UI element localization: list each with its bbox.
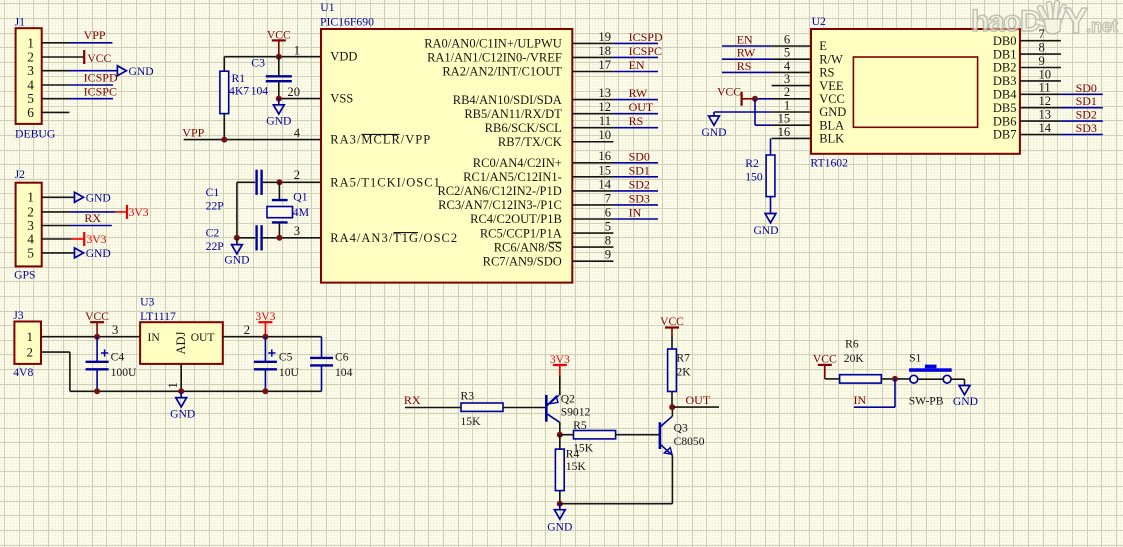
svg-text:LT1117: LT1117 xyxy=(140,310,176,323)
svg-text:BLA: BLA xyxy=(819,118,844,132)
wire R6 to S1 xyxy=(881,378,910,380)
svg-text:R4: R4 xyxy=(566,448,580,461)
svg-text:3V3: 3V3 xyxy=(255,310,275,323)
svg-text:3: 3 xyxy=(784,72,790,86)
wire J2 pin4 xyxy=(42,238,72,240)
svg-text:1: 1 xyxy=(27,35,34,50)
svg-text:U1: U1 xyxy=(320,1,334,14)
wire VPP node xyxy=(184,139,321,141)
wire BLK to R2 xyxy=(770,138,772,155)
svg-text:VCC: VCC xyxy=(85,310,109,323)
svg-text:DB6: DB6 xyxy=(993,114,1017,128)
wire OUT xyxy=(674,406,719,408)
capacitor C5 xyxy=(264,337,266,362)
svg-text:12: 12 xyxy=(1039,94,1052,108)
node VPP junction xyxy=(221,137,227,143)
svg-text:1: 1 xyxy=(784,98,790,112)
node pin20 junction xyxy=(276,96,282,102)
wire U1 pin2 OSC1 xyxy=(263,181,321,183)
wire U1 pin3 OSC2 xyxy=(263,237,321,239)
node C5 top junction xyxy=(262,334,268,340)
wire J1 pin3 xyxy=(42,70,70,72)
power port VCC top xyxy=(272,39,286,41)
svg-text:9: 9 xyxy=(1039,54,1045,68)
svg-text:haoD: haoD xyxy=(971,5,1041,38)
svg-text:R1: R1 xyxy=(232,72,246,85)
svg-text:3V3: 3V3 xyxy=(87,233,107,246)
ground R2 xyxy=(765,214,776,223)
svg-text:15: 15 xyxy=(598,163,611,177)
ground S1 xyxy=(959,386,970,395)
svg-text:4: 4 xyxy=(784,59,791,73)
svg-text:8: 8 xyxy=(605,234,611,248)
svg-text:2: 2 xyxy=(27,345,34,360)
svg-text:11: 11 xyxy=(599,114,611,128)
svg-text:GND: GND xyxy=(266,115,291,128)
svg-text:SW-PB: SW-PB xyxy=(909,395,944,408)
svg-text:18: 18 xyxy=(598,44,611,58)
svg-text:OUT: OUT xyxy=(629,100,654,114)
wire U1 pin20 xyxy=(279,98,321,100)
wire 3V3 to Q2 emitter xyxy=(559,376,561,395)
svg-text:7: 7 xyxy=(605,191,611,205)
svg-text:C3: C3 xyxy=(251,57,265,70)
capacitor C1 xyxy=(255,170,257,195)
svg-text:J1: J1 xyxy=(15,16,26,29)
resistor R1 xyxy=(223,57,225,71)
power port VCC J1 xyxy=(83,50,85,64)
svg-text:GND: GND xyxy=(753,224,778,237)
svg-text:C6: C6 xyxy=(335,351,349,364)
svg-text:U2: U2 xyxy=(812,15,826,28)
wire J3 pin1 to U3 xyxy=(41,336,140,338)
svg-text:4: 4 xyxy=(27,231,34,246)
wire Q3 emitter down xyxy=(671,455,673,504)
ground J2 pin5 xyxy=(75,248,84,258)
node R6 junction xyxy=(892,376,898,382)
svg-text:14: 14 xyxy=(598,177,611,191)
svg-text:RA2/AN2/INT/C1OUT: RA2/AN2/INT/C1OUT xyxy=(442,65,562,79)
resistor R4 xyxy=(559,435,561,449)
node U2 VCC junction xyxy=(752,96,758,102)
svg-text:1: 1 xyxy=(27,190,34,205)
svg-text:GND: GND xyxy=(129,65,154,78)
svg-text:1: 1 xyxy=(27,329,34,344)
svg-text:GND: GND xyxy=(86,247,111,260)
svg-text:9: 9 xyxy=(605,248,611,262)
svg-text:RC3/AN7/C12IN3-/P1C: RC3/AN7/C12IN3-/P1C xyxy=(438,198,562,212)
svg-text:10: 10 xyxy=(1039,67,1052,81)
svg-text:ICSPC: ICSPC xyxy=(84,85,117,99)
svg-text:GND: GND xyxy=(170,408,195,421)
svg-text:S1: S1 xyxy=(909,351,921,364)
svg-text:C4: C4 xyxy=(111,351,125,364)
svg-text:VEE: VEE xyxy=(819,79,844,93)
svg-text:SD3: SD3 xyxy=(629,191,650,205)
svg-text:RA5/T1CKI/OSC1: RA5/T1CKI/OSC1 xyxy=(330,175,441,189)
transistor Q3 C8050 xyxy=(659,422,662,449)
svg-text:DB5: DB5 xyxy=(993,101,1017,115)
wire U3 bottom rail xyxy=(97,390,321,392)
svg-text:E: E xyxy=(819,39,827,53)
svg-text:RS: RS xyxy=(819,66,834,80)
power port 3V3 J2 pin2 xyxy=(126,205,128,219)
svg-text:13: 13 xyxy=(598,86,611,100)
svg-text:RB7/TX/CK: RB7/TX/CK xyxy=(498,135,562,149)
svg-text:VCC: VCC xyxy=(813,352,837,365)
wire IN label xyxy=(894,379,896,407)
svg-text:RX: RX xyxy=(84,211,101,225)
svg-text:C2: C2 xyxy=(206,227,220,240)
wire Q2 collector xyxy=(559,422,561,434)
svg-text:Q1: Q1 xyxy=(293,190,307,203)
wire J1 pin4 ICSPD xyxy=(42,84,70,86)
wire S1 to GND xyxy=(951,378,965,380)
svg-text:5: 5 xyxy=(605,219,611,233)
wire J1 pin5 ICSPC xyxy=(42,98,70,100)
svg-text:150: 150 xyxy=(745,171,763,184)
svg-text:R/W: R/W xyxy=(819,52,843,66)
capacitor C6 xyxy=(321,337,323,358)
svg-text:RC2/AN6/C12IN2-/P1D: RC2/AN6/C12IN2-/P1D xyxy=(437,184,561,198)
transistor Q2 S9012 xyxy=(545,395,548,422)
svg-text:.net: .net xyxy=(1086,16,1118,36)
svg-text:DEBUG: DEBUG xyxy=(15,127,56,140)
svg-text:15K: 15K xyxy=(461,415,482,428)
svg-text:10: 10 xyxy=(598,128,611,142)
svg-text:ICSPD: ICSPD xyxy=(84,71,118,85)
node pin3 junction xyxy=(276,235,282,241)
svg-text:2: 2 xyxy=(784,85,790,99)
node rail C5 junction xyxy=(262,388,268,394)
svg-text:17: 17 xyxy=(598,58,611,72)
svg-text:22P: 22P xyxy=(206,240,225,253)
svg-text:VDD: VDD xyxy=(330,50,357,64)
svg-text:SD1: SD1 xyxy=(1076,94,1097,108)
power port 3V3 U3 xyxy=(258,321,272,323)
svg-text:19: 19 xyxy=(598,30,611,44)
svg-text:VCC: VCC xyxy=(819,92,845,106)
svg-text:RB4/AN10/SDI/SDA: RB4/AN10/SDI/SDA xyxy=(453,93,562,107)
wire J1 pin1 VPP xyxy=(42,42,70,44)
svg-text:4: 4 xyxy=(294,126,301,140)
net label RS U2 xyxy=(722,71,772,73)
svg-text:SD0: SD0 xyxy=(1076,81,1097,95)
svg-text:R5: R5 xyxy=(573,419,587,432)
wire Q3 collector xyxy=(671,407,673,416)
ground J2 pin1 xyxy=(75,192,84,202)
resistor R2 xyxy=(766,155,775,197)
svg-text:1: 1 xyxy=(166,382,180,388)
svg-text:C1: C1 xyxy=(206,186,220,199)
svg-text:RS: RS xyxy=(737,59,752,73)
ground U2 xyxy=(713,112,715,116)
svg-text:RW: RW xyxy=(737,46,756,60)
wire J2 pin3 RX xyxy=(42,225,70,227)
wire J2 pin1 xyxy=(42,196,75,198)
node Q2 collector junction xyxy=(557,432,563,438)
svg-text:ICSPC: ICSPC xyxy=(629,44,662,58)
svg-text:4V8: 4V8 xyxy=(13,366,33,379)
svg-text:SD3: SD3 xyxy=(1076,121,1097,135)
svg-text:4M: 4M xyxy=(293,206,310,219)
svg-text:2: 2 xyxy=(294,168,300,182)
resistor R5 xyxy=(561,434,574,436)
svg-text:R6: R6 xyxy=(845,338,859,351)
svg-text:22P: 22P xyxy=(206,199,225,212)
svg-text:6: 6 xyxy=(605,205,611,219)
ground U3 xyxy=(180,391,182,397)
node rail C4 junction xyxy=(94,388,100,394)
svg-text:RB6/SCK/SCL: RB6/SCK/SCL xyxy=(485,121,562,135)
svg-text:DB2: DB2 xyxy=(993,61,1017,75)
ground C2 xyxy=(236,238,238,245)
wire J1 pin2 xyxy=(42,56,84,58)
power port VCC U2 xyxy=(740,92,742,106)
svg-text:VCC: VCC xyxy=(87,52,111,65)
node rail ADJ junction xyxy=(178,388,184,394)
svg-text:GND: GND xyxy=(701,126,726,139)
svg-text:20K: 20K xyxy=(844,352,865,365)
svg-text:R2: R2 xyxy=(745,157,759,170)
wire U2 GND xyxy=(714,111,772,113)
node R4 bottom junction xyxy=(557,501,563,507)
svg-text:VCC: VCC xyxy=(717,86,741,99)
svg-text:RA0/AN0/C1IN+/ULPWU: RA0/AN0/C1IN+/ULPWU xyxy=(424,37,562,51)
resistor R7 xyxy=(668,349,677,392)
svg-text:SD2: SD2 xyxy=(629,177,650,191)
svg-text:ADJ: ADJ xyxy=(174,331,188,354)
svg-text:Y: Y xyxy=(1064,0,1088,41)
svg-text:104: 104 xyxy=(251,84,269,97)
svg-text:20: 20 xyxy=(287,85,300,99)
resistor R3 xyxy=(461,403,503,411)
svg-text:5: 5 xyxy=(27,245,34,260)
svg-text:U3: U3 xyxy=(140,295,154,308)
svg-text:RC5/CCP1/P1A: RC5/CCP1/P1A xyxy=(480,226,562,240)
svg-text:RC7/AN9/SDO: RC7/AN9/SDO xyxy=(483,254,562,268)
svg-text:3: 3 xyxy=(112,322,119,337)
svg-text:GND: GND xyxy=(224,254,249,267)
svg-text:OUT: OUT xyxy=(191,331,215,344)
ground J1 pin3 xyxy=(117,66,126,76)
power port 3V3 J2 pin4 xyxy=(83,232,85,246)
svg-text:15: 15 xyxy=(778,112,791,126)
svg-text:DB4: DB4 xyxy=(993,88,1017,102)
wire VCC to BLA xyxy=(754,99,756,125)
svg-text:GPS: GPS xyxy=(14,268,35,281)
svg-text:6: 6 xyxy=(27,105,34,120)
svg-text:VCC: VCC xyxy=(267,28,291,41)
net label EN U2 xyxy=(722,45,772,47)
svg-text:2K: 2K xyxy=(676,365,691,378)
svg-text:100U: 100U xyxy=(111,366,137,379)
svg-text:SD1: SD1 xyxy=(629,163,650,177)
svg-text:EN: EN xyxy=(629,58,645,72)
svg-text:RB5/AN11/RX/DT: RB5/AN11/RX/DT xyxy=(464,107,562,121)
svg-text:11: 11 xyxy=(1039,81,1051,95)
svg-text:RX: RX xyxy=(404,393,421,407)
svg-text:3: 3 xyxy=(27,63,34,78)
svg-text:IN: IN xyxy=(854,393,867,407)
svg-text:R3: R3 xyxy=(461,390,475,403)
svg-text:3V3: 3V3 xyxy=(129,206,149,219)
wire J2 pin5 xyxy=(42,252,75,254)
logo haoDIY.net xyxy=(971,0,1118,41)
crystal Q1 xyxy=(278,182,280,200)
ground C3 xyxy=(278,99,280,105)
svg-text:VSS: VSS xyxy=(330,92,353,106)
capacitor C4 xyxy=(96,337,98,362)
svg-text:12: 12 xyxy=(598,100,611,114)
power port VCC U3 xyxy=(90,321,104,323)
svg-text:VPP: VPP xyxy=(84,28,106,42)
wire J1 pin6 xyxy=(42,111,70,113)
svg-text:VPP: VPP xyxy=(182,126,204,140)
svg-text:1: 1 xyxy=(294,43,300,57)
svg-text:SD2: SD2 xyxy=(1076,108,1097,122)
svg-text:RC1/AN5/C12IN1-: RC1/AN5/C12IN1- xyxy=(463,170,562,184)
svg-text:16: 16 xyxy=(598,149,611,163)
svg-text:RA1/AN1/C12IN0-/VREF: RA1/AN1/C12IN0-/VREF xyxy=(427,51,562,65)
svg-text:SD0: SD0 xyxy=(629,149,650,163)
svg-text:4K7: 4K7 xyxy=(229,84,249,97)
svg-text:DB3: DB3 xyxy=(993,74,1017,88)
wire R3 to Q2 xyxy=(503,407,545,409)
svg-text:6: 6 xyxy=(784,32,790,46)
svg-text:EN: EN xyxy=(737,33,753,47)
svg-text:3V3: 3V3 xyxy=(550,353,570,366)
wire R2 to GND xyxy=(770,197,772,214)
svg-text:DB1: DB1 xyxy=(993,47,1017,61)
svg-text:RC0/AN4/C2IN+: RC0/AN4/C2IN+ xyxy=(473,156,562,170)
node VCC junction xyxy=(276,54,282,60)
svg-text:ICSPD: ICSPD xyxy=(629,30,663,44)
svg-text:GND: GND xyxy=(547,521,572,534)
svg-text:IN: IN xyxy=(629,206,642,220)
svg-text:Q2: Q2 xyxy=(561,393,575,406)
net label RW U2 xyxy=(722,58,772,60)
svg-text:GND: GND xyxy=(953,395,978,408)
capacitor C3 xyxy=(278,57,280,77)
wire RX xyxy=(405,407,461,409)
svg-text:RW: RW xyxy=(629,86,648,100)
svg-text:BLK: BLK xyxy=(819,132,844,146)
svg-text:J2: J2 xyxy=(15,168,26,181)
svg-text:C8050: C8050 xyxy=(674,435,705,448)
svg-text:VCC: VCC xyxy=(660,315,684,328)
power port VCC R6 xyxy=(818,364,832,366)
svg-text:OUT: OUT xyxy=(686,393,711,407)
wire VCC node xyxy=(224,56,321,58)
svg-text:RC4/C2OUT/P1B: RC4/C2OUT/P1B xyxy=(470,212,562,226)
svg-text:PIC16F690: PIC16F690 xyxy=(320,16,374,29)
wire J3 pin2 down xyxy=(41,351,70,353)
node C2 junction xyxy=(234,235,240,241)
svg-text:15K: 15K xyxy=(566,460,587,473)
svg-text:14: 14 xyxy=(1039,121,1052,135)
svg-text:RT1602: RT1602 xyxy=(810,157,848,170)
wire U3 OUT xyxy=(223,336,322,338)
svg-text:10U: 10U xyxy=(279,366,300,379)
svg-text:S9012: S9012 xyxy=(561,405,591,418)
node OUT junction xyxy=(669,404,675,410)
power port 3V3 Q2 xyxy=(553,364,567,366)
svg-text:3: 3 xyxy=(294,224,300,238)
ground R4 xyxy=(559,504,561,510)
svg-text:Q3: Q3 xyxy=(674,421,688,434)
svg-text:13: 13 xyxy=(1039,108,1052,122)
svg-text:DB7: DB7 xyxy=(993,128,1017,142)
resistor R6 xyxy=(840,375,882,383)
svg-text:16: 16 xyxy=(778,125,791,139)
svg-text:GND: GND xyxy=(819,105,846,119)
capacitor C2 xyxy=(255,225,257,250)
node pin2 junction xyxy=(276,179,282,185)
svg-text:R7: R7 xyxy=(676,351,690,364)
svg-text:8: 8 xyxy=(1039,41,1045,55)
power port VCC R7 xyxy=(665,326,679,328)
wire VCC to R6 xyxy=(825,378,840,380)
svg-text:GND: GND xyxy=(86,191,111,204)
wire J2 pin2 xyxy=(42,211,70,213)
svg-text:IN: IN xyxy=(148,331,161,344)
svg-text:5: 5 xyxy=(784,46,790,60)
svg-text:C5: C5 xyxy=(279,351,293,364)
node C4 top junction xyxy=(94,334,100,340)
svg-text:J3: J3 xyxy=(13,309,24,322)
svg-text:RS: RS xyxy=(629,114,644,128)
wire crystal left xyxy=(236,182,238,238)
svg-text:104: 104 xyxy=(335,366,353,379)
wire U3 ADJ xyxy=(180,364,182,391)
svg-text:2: 2 xyxy=(244,322,251,337)
